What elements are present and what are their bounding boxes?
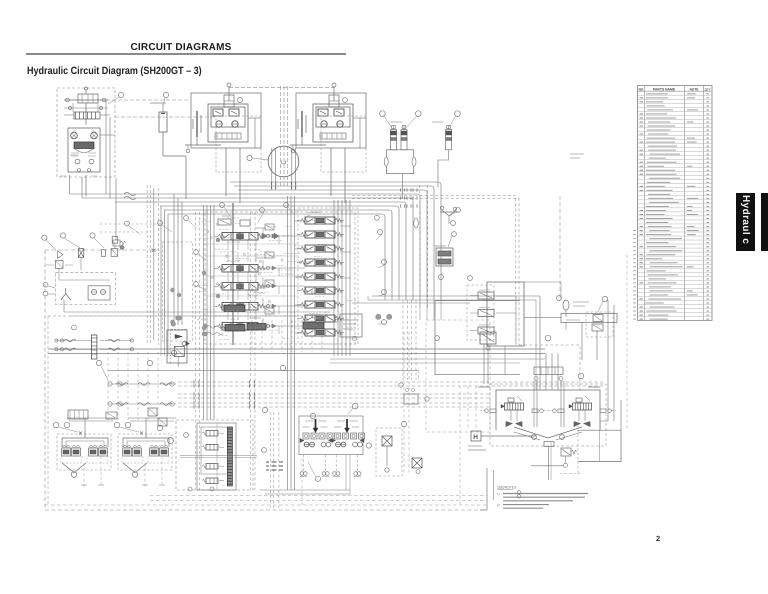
svg-text:NO: NO <box>639 87 644 91</box>
svg-text:2): 2) <box>497 503 500 507</box>
svg-text:注記/NOTES: 注記/NOTES <box>497 486 517 490</box>
svg-text:PARTS NAME: PARTS NAME <box>653 87 676 91</box>
svg-text:1): 1) <box>497 492 500 496</box>
svg-text:NOTE: NOTE <box>690 87 699 91</box>
svg-text:H: H <box>473 434 478 441</box>
svg-text:QTY: QTY <box>705 87 711 91</box>
